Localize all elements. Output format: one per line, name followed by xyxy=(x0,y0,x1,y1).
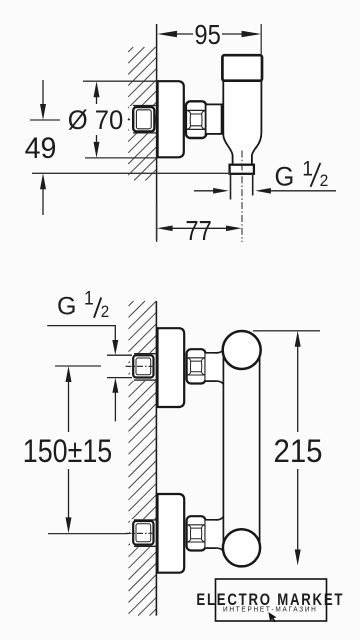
svg-text:1: 1 xyxy=(84,287,94,309)
svg-text:49: 49 xyxy=(25,133,57,165)
svg-text:215: 215 xyxy=(273,433,322,469)
svg-text:G: G xyxy=(275,161,295,192)
svg-text:Ø 70: Ø 70 xyxy=(68,104,124,135)
svg-text:G: G xyxy=(57,293,76,321)
svg-text:2: 2 xyxy=(320,171,329,190)
svg-text:2: 2 xyxy=(101,304,110,322)
svg-text:77: 77 xyxy=(185,214,211,246)
svg-text:150±15: 150±15 xyxy=(23,434,112,470)
svg-text:ИНТЕРНЕТ-МАГАЗИН: ИНТЕРНЕТ-МАГАЗИН xyxy=(223,606,318,613)
svg-text:1: 1 xyxy=(302,158,313,181)
svg-text:95: 95 xyxy=(194,18,220,50)
